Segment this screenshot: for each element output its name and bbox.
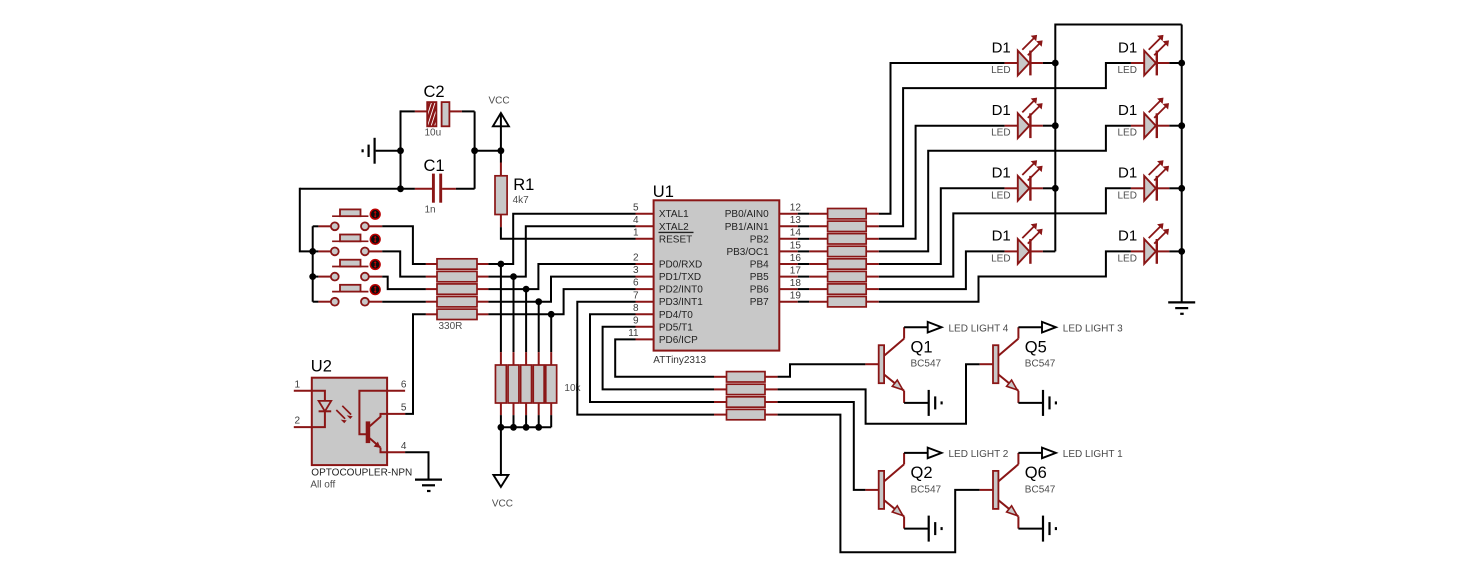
transistor Q6 BC547 xyxy=(980,453,1056,529)
node junction (538.7,301.7) xyxy=(535,298,542,305)
resistor R1 4k7 xyxy=(495,151,534,227)
svg-text:PB7: PB7 xyxy=(750,297,769,308)
wire ground to node at (400.5,150.7) xyxy=(376,150,401,152)
IC U2 OPTOCOUPLER-NPN xyxy=(310,358,412,491)
resistor pack RN1 330R (5 resistors) xyxy=(426,259,489,332)
svg-text:LED LIGHT 4: LED LIGHT 4 xyxy=(949,323,1009,334)
wire Q1 emitter to ground xyxy=(904,402,929,404)
svg-text:2: 2 xyxy=(295,416,301,427)
svg-text:BC547: BC547 xyxy=(911,484,942,495)
power VCC (top) xyxy=(489,95,510,150)
wire Q5 collector to output flag xyxy=(1018,326,1042,328)
pin 9 PD5/T1 xyxy=(633,315,693,333)
wire R1 bottom to RESET pin xyxy=(501,227,636,239)
wire base resistor 2 to Q5 xyxy=(778,364,980,424)
wire junction down to 10k resistor 5 xyxy=(550,314,552,352)
svg-text:BC547: BC547 xyxy=(1025,484,1056,495)
svg-text:LED LIGHT 2: LED LIGHT 2 xyxy=(949,449,1009,460)
LED D1 (left column, row 3) xyxy=(991,160,1043,201)
svg-text:PD6/ICP: PD6/ICP xyxy=(659,335,698,346)
wire 330R row1 to XTAL1 xyxy=(488,214,635,264)
LED D1 (left column, row 2) xyxy=(991,98,1043,139)
wire Q6 collector to output flag xyxy=(1018,452,1042,454)
svg-text:D1: D1 xyxy=(992,39,1011,56)
node junction (312.7,251.4) xyxy=(309,248,316,255)
U2 internal LED xyxy=(312,391,353,427)
U2 internal phototransistor xyxy=(366,414,387,452)
node junction (500.9,264.0) xyxy=(498,261,505,268)
svg-text:U1: U1 xyxy=(653,183,674,201)
svg-text:2: 2 xyxy=(633,253,639,264)
wire PB0 to LED left column row 1 xyxy=(879,63,1005,214)
svg-text:BC547: BC547 xyxy=(911,359,942,370)
node junction (513.5,427.3) xyxy=(510,424,517,431)
svg-text:17: 17 xyxy=(790,266,802,277)
svg-text:All off: All off xyxy=(310,479,335,490)
pin 18 PB6 xyxy=(750,278,802,296)
svg-text:RESET: RESET xyxy=(659,234,692,245)
wire junction down to 10k resistor 1 xyxy=(500,264,502,352)
svg-text:6: 6 xyxy=(401,379,407,390)
output flag LED LIGHT 4 xyxy=(928,322,1009,334)
ground (Q5 emitter) xyxy=(1043,390,1056,416)
svg-text:330R: 330R xyxy=(439,321,463,332)
pin 17 PB5 xyxy=(750,266,802,284)
wire LED cathode to left rail row 3 xyxy=(1043,187,1055,189)
svg-text:OPTOCOUPLER-NPN: OPTOCOUPLER-NPN xyxy=(311,467,412,478)
svg-text:PB1/AIN1: PB1/AIN1 xyxy=(725,222,769,233)
svg-text:PD0/RXD: PD0/RXD xyxy=(659,260,702,271)
wire Q5 emitter to ground xyxy=(1018,402,1043,404)
svg-text:PD2/INT0: PD2/INT0 xyxy=(659,285,703,296)
wire PB4 to LED left column row 3 xyxy=(879,188,1005,264)
svg-text:LED: LED xyxy=(991,253,1010,264)
svg-text:PD5/T1: PD5/T1 xyxy=(659,322,693,333)
LED D1 (right column, row 1) xyxy=(1118,35,1170,76)
node junction (500.9,427.3) xyxy=(498,424,505,431)
svg-text:10u: 10u xyxy=(425,128,442,139)
pin 16 PB4 xyxy=(750,253,802,271)
wire LED cathode to left rail row 4 xyxy=(1043,250,1055,252)
wire base resistor 3 to Q2 xyxy=(778,402,866,490)
pin 19 PB7 xyxy=(750,291,802,309)
pin 5 (U2 collector) xyxy=(387,402,407,414)
wire C2 right down to rail xyxy=(474,111,476,150)
wire SW2 to 330R row2 xyxy=(382,251,426,276)
svg-text:PB3/OC1: PB3/OC1 xyxy=(726,247,769,258)
svg-text:U2: U2 xyxy=(311,358,332,376)
node junction (400.5,150.7) xyxy=(397,147,404,154)
wire SW1 to 330R row1 xyxy=(382,226,426,264)
svg-text:12: 12 xyxy=(790,203,802,214)
svg-text:19: 19 xyxy=(790,291,802,302)
svg-text:4: 4 xyxy=(633,215,639,226)
node junction right rail (63.0) xyxy=(1178,60,1185,67)
node junction (312.7,276.6) xyxy=(309,273,316,280)
LED D1 (right column, row 2) xyxy=(1118,98,1170,139)
wire Q2 collector to output flag xyxy=(904,452,928,454)
svg-text:LED: LED xyxy=(1118,190,1137,201)
svg-text:PB6: PB6 xyxy=(750,285,769,296)
svg-text:4k7: 4k7 xyxy=(513,195,530,206)
capacitor C1 (1n) xyxy=(415,157,475,215)
svg-text:1n: 1n xyxy=(425,204,436,215)
wire PD4 (pin8) to base resistor pack xyxy=(590,314,714,402)
pin 2 PD0/RXD xyxy=(633,253,702,271)
pin 8 PD4/T0 xyxy=(633,303,693,321)
wire PB5 to LED right column row 3 xyxy=(879,188,1131,276)
wire button rail x=312.7 xyxy=(313,226,319,301)
wire 330R row5 to PD2 (pin6) xyxy=(488,289,635,314)
pin 6 PD2/INT0 xyxy=(633,278,703,296)
wire 330R row2 to XTAL2 xyxy=(488,226,635,276)
ground (left, near C2) xyxy=(363,138,375,164)
pin 5 XTAL1 xyxy=(633,202,689,220)
wire LED right cathode rail xyxy=(1181,25,1183,303)
svg-text:9: 9 xyxy=(633,315,639,326)
svg-text:D1: D1 xyxy=(992,228,1011,245)
push button SW4 xyxy=(318,285,382,306)
wire VCC rail y=150.7 from 474.6 to 500.9 xyxy=(475,150,501,152)
svg-text:10k: 10k xyxy=(564,383,581,394)
wire 10k bottom rail to VCC xyxy=(501,415,551,476)
svg-text:D1: D1 xyxy=(1118,165,1137,182)
push button SW2 xyxy=(318,234,382,255)
svg-text:PD3/INT1: PD3/INT1 xyxy=(659,297,703,308)
resistor pack RN2 10k (5 resistors) xyxy=(495,352,581,415)
transistor Q2 BC547 xyxy=(865,453,941,529)
node junction (551.2,314.3) xyxy=(548,311,555,318)
resistor pack RN4 (4 base resistors) xyxy=(714,372,778,420)
node junction right rail (125.7) xyxy=(1178,122,1185,129)
svg-text:D1: D1 xyxy=(1118,39,1137,56)
svg-text:XTAL1: XTAL1 xyxy=(659,209,689,220)
wire 330R row5 to U2 pin5 xyxy=(405,314,426,414)
pin 1 (U2 anode) xyxy=(294,379,312,391)
capacitor C2 (10u, polarized) xyxy=(401,83,475,139)
pin 12 PB0/AIN0 xyxy=(725,203,802,221)
svg-text:Q2: Q2 xyxy=(911,464,933,482)
pin 1 RESET xyxy=(633,227,693,245)
svg-text:D1: D1 xyxy=(1118,102,1137,119)
wire PD6 (pin11) to base resistor pack xyxy=(615,339,714,376)
wire SW4 to 330R row4 xyxy=(382,301,426,303)
svg-text:VCC: VCC xyxy=(489,95,510,106)
output flag LED LIGHT 1 xyxy=(1042,448,1123,460)
svg-text:5: 5 xyxy=(633,202,639,213)
node junction left rail (125.7) xyxy=(1052,122,1059,129)
wire PB2 to LED left column row 2 xyxy=(879,126,1005,239)
wire 330R row3 to PD0 (pin2) xyxy=(488,264,635,289)
wire PD3 (pin7) to base resistor pack xyxy=(577,302,714,415)
wire PB3 to LED right column row 2 xyxy=(879,126,1131,252)
wire junction down to 10k resistor 4 xyxy=(538,302,540,352)
node junction (526.1,427.3) xyxy=(523,424,530,431)
svg-text:PB2: PB2 xyxy=(750,234,769,245)
svg-text:Q1: Q1 xyxy=(911,339,933,357)
ground (Q6 emitter) xyxy=(1043,516,1056,542)
svg-text:18: 18 xyxy=(790,278,802,289)
pin 7 PD3/INT1 xyxy=(633,290,703,308)
svg-text:LED: LED xyxy=(1118,128,1137,139)
svg-text:14: 14 xyxy=(790,228,802,239)
pin 2 (U2 cathode) xyxy=(294,416,312,428)
svg-text:D1: D1 xyxy=(992,165,1011,182)
wire LED cathode to right rail row 2 xyxy=(1169,125,1181,127)
wire Q1 collector to output flag xyxy=(904,326,928,328)
node junction left rail (188.3) xyxy=(1052,185,1059,192)
pin 6 (U2 base, unconnected) xyxy=(387,379,407,391)
svg-text:C1: C1 xyxy=(424,157,445,175)
wire Q2 emitter to ground xyxy=(904,528,929,530)
svg-text:LED: LED xyxy=(1118,253,1137,264)
svg-text:16: 16 xyxy=(790,253,802,264)
output flag LED LIGHT 3 xyxy=(1042,322,1123,334)
ground (Q2 emitter) xyxy=(929,516,942,542)
svg-text:C2: C2 xyxy=(424,83,445,101)
node junction (526.1,289.1) xyxy=(523,286,530,293)
wire junction down to 10k resistor 2 xyxy=(513,277,515,353)
pin 15 PB3/OC1 xyxy=(726,240,801,258)
push button SW3 xyxy=(318,260,382,281)
wire LED cathode to right rail row 4 xyxy=(1169,250,1181,252)
wire LED cathode to right rail row 1 xyxy=(1169,62,1181,64)
node junction (500.9,150.7) xyxy=(498,147,505,154)
svg-text:LED LIGHT 1: LED LIGHT 1 xyxy=(1063,449,1123,460)
svg-text:4: 4 xyxy=(401,441,407,452)
pin 13 PB1/AIN1 xyxy=(725,215,802,233)
wire U2 pin4 to ground xyxy=(405,452,428,479)
node junction left rail (63.0) xyxy=(1052,60,1059,67)
LED D1 (right column, row 4) xyxy=(1118,223,1170,264)
svg-text:LED: LED xyxy=(991,128,1010,139)
svg-text:ATTiny2313: ATTiny2313 xyxy=(653,355,706,366)
node junction (513.5,276.6) xyxy=(510,273,517,280)
output flag LED LIGHT 2 xyxy=(928,448,1009,460)
svg-text:5: 5 xyxy=(401,402,407,413)
node junction (474.6,150.7) xyxy=(471,147,478,154)
node junction (400.5,188.8) xyxy=(397,185,404,192)
svg-text:BC547: BC547 xyxy=(1025,359,1056,370)
resistor pack RN3 (8 LED series resistors) xyxy=(798,209,879,307)
push button SW1 xyxy=(318,209,382,230)
node junction right rail (251.4) xyxy=(1178,248,1185,255)
svg-text:D1: D1 xyxy=(1118,228,1137,245)
svg-text:PB4: PB4 xyxy=(750,260,769,271)
svg-text:VCC: VCC xyxy=(492,498,513,509)
pin 4 (U2 emitter) xyxy=(387,441,407,453)
wire Q6 emitter to ground xyxy=(1018,528,1043,530)
wire PB6 to LED left column row 4 xyxy=(879,251,1005,289)
wire LED cathode to right rail row 3 xyxy=(1169,187,1181,189)
wire LED left cathode rail xyxy=(1055,25,1181,252)
wire LED cathode to left rail row 1 xyxy=(1043,62,1055,64)
svg-text:3: 3 xyxy=(633,265,639,276)
wire PD5 (pin9) to base resistor pack xyxy=(603,327,714,390)
svg-text:PD4/T0: PD4/T0 xyxy=(659,310,693,321)
ground (LED cathode rail) xyxy=(1168,302,1195,313)
svg-text:LED: LED xyxy=(1118,65,1137,76)
LED D1 (left column, row 1) xyxy=(991,35,1043,76)
svg-text:15: 15 xyxy=(790,240,802,251)
pin 14 PB2 xyxy=(750,228,802,246)
svg-text:PB5: PB5 xyxy=(750,272,769,283)
LED D1 (right column, row 3) xyxy=(1118,160,1170,201)
U2 internal base wire (pin 6) xyxy=(359,391,387,435)
ground (Q1 emitter) xyxy=(929,390,942,416)
pin 11 PD6/ICP xyxy=(628,328,698,346)
ground (U2 emitter) xyxy=(415,480,442,491)
pin 4 XTAL2 xyxy=(633,215,689,233)
svg-text:LED: LED xyxy=(991,65,1010,76)
wire base resistor 4 to Q6 xyxy=(778,415,980,553)
LED D1 (left column, row 4) xyxy=(991,223,1043,264)
svg-text:Q6: Q6 xyxy=(1025,464,1047,482)
wire C1 right up to rail xyxy=(474,151,476,189)
svg-text:LED LIGHT 3: LED LIGHT 3 xyxy=(1063,323,1123,334)
wire SW3 to 330R row3 xyxy=(382,277,426,290)
svg-text:7: 7 xyxy=(633,290,639,301)
IC U1 ATTiny2313 xyxy=(653,183,780,366)
svg-text:6: 6 xyxy=(633,278,639,289)
svg-text:LED: LED xyxy=(991,190,1010,201)
svg-text:8: 8 xyxy=(633,303,639,314)
svg-text:13: 13 xyxy=(790,215,802,226)
svg-text:1: 1 xyxy=(295,379,301,390)
svg-text:D1: D1 xyxy=(992,102,1011,119)
svg-text:1: 1 xyxy=(633,227,639,238)
svg-text:Q5: Q5 xyxy=(1025,339,1047,357)
wire PB7 to LED right column row 4 xyxy=(879,251,1131,301)
svg-text:PD1/TXD: PD1/TXD xyxy=(659,272,701,283)
wire base resistor 1 to Q1 xyxy=(778,364,866,377)
wire left rail x=299.8 down to button rail xyxy=(300,188,313,252)
wire y=188.8 from left rail corner to C1 xyxy=(300,188,415,190)
transistor Q1 BC547 xyxy=(865,327,941,403)
wire vertical x=400.5 from C2 wire down to y=188.8 xyxy=(400,110,402,188)
node junction (538.7,427.3) xyxy=(535,424,542,431)
wire LED cathode to left rail row 2 xyxy=(1043,125,1055,127)
transistor Q5 BC547 xyxy=(980,327,1056,403)
pin 3 PD1/TXD xyxy=(633,265,701,283)
wire junction down to 10k resistor 3 xyxy=(525,289,527,352)
svg-text:PB0/AIN0: PB0/AIN0 xyxy=(725,209,769,220)
power VCC (bottom, arrow down) xyxy=(492,475,513,509)
wire 330R row4 to PD1 (pin3) xyxy=(488,277,635,302)
svg-text:11: 11 xyxy=(628,328,639,339)
node junction right rail (188.3) xyxy=(1178,185,1185,192)
svg-text:XTAL2: XTAL2 xyxy=(659,222,689,233)
svg-text:R1: R1 xyxy=(513,176,534,194)
wire PB1 to LED right column row 1 xyxy=(879,63,1131,226)
